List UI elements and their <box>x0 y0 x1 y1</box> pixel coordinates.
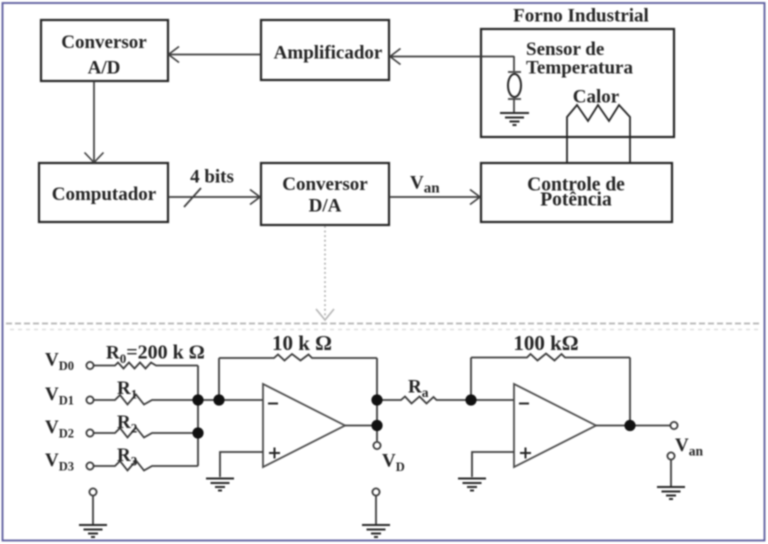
resistor Ra <box>377 397 471 404</box>
wire Conversor A/D to Computador with arrow <box>93 81 95 161</box>
resistor R0 <box>94 363 198 369</box>
svg-text:Calor: Calor <box>573 87 620 108</box>
terminal VD3 <box>86 462 93 469</box>
feedback right vertical op2 <box>629 358 631 426</box>
wire sensor to Amplificador with arrow <box>391 56 514 58</box>
op1 plus sign <box>269 448 280 459</box>
svg-text:4 bits: 4 bits <box>190 167 234 188</box>
bus slash 4 bits <box>184 188 201 207</box>
junction node Ra tap <box>371 394 382 405</box>
divider faint second line <box>10 329 760 331</box>
box Conversor A/D <box>41 20 168 81</box>
resistor R3 <box>94 461 198 471</box>
dotted wire D/A down to divider with arrow <box>316 226 334 320</box>
wire Amplificador to Conversor A/D with arrow <box>170 54 261 56</box>
feedback right vertical op1 <box>376 358 378 441</box>
feedback left vertical op1 <box>218 358 220 400</box>
junction node feedback2 at op2 inverting input <box>465 394 476 405</box>
ground op2 plus <box>458 479 486 491</box>
resistor R1 <box>94 395 198 405</box>
op2 plus sign <box>520 448 531 459</box>
junction node op2 output <box>624 420 635 431</box>
op2 minus sign <box>519 403 529 405</box>
svg-text:100 kΩ: 100 kΩ <box>513 331 578 355</box>
svg-text:Computador: Computador <box>52 184 157 205</box>
op1 output wire <box>345 425 377 427</box>
svg-text:Conversor: Conversor <box>61 32 147 53</box>
svg-text:10 k Ω: 10 k Ω <box>272 331 332 355</box>
divider dotted line <box>6 323 760 325</box>
junction node feedback1 at op1 inverting input <box>213 394 224 405</box>
junction node op1 output <box>371 420 382 431</box>
box Forno Industrial <box>481 29 674 137</box>
svg-text:Temperatura: Temperatura <box>526 58 633 79</box>
wire Computador to Conversor D/A with arrow <box>168 196 259 198</box>
op-amp U1 <box>263 384 345 467</box>
op-amp U2 <box>514 384 596 467</box>
terminal Van output <box>670 422 677 429</box>
summing bus vertical <box>197 366 199 467</box>
op1 plus input wire <box>220 452 263 477</box>
box Computador <box>39 163 168 222</box>
ground sensor <box>500 113 529 125</box>
heater element Calor <box>567 105 630 163</box>
ground terminal mid VD <box>372 488 379 495</box>
feedback resistor 10k <box>219 354 377 361</box>
ground terminal Van <box>667 452 674 459</box>
wire Ra to op-amp2 minus <box>471 399 514 401</box>
op1 minus sign <box>268 403 278 405</box>
feedback left vertical op2 <box>470 358 472 401</box>
ground op1 plus <box>206 479 234 491</box>
svg-text:D/A: D/A <box>309 196 342 217</box>
svg-text:Forno Industrial: Forno Industrial <box>513 6 649 27</box>
box Amplificador <box>261 20 389 80</box>
svg-text:Conversor: Conversor <box>282 174 368 195</box>
terminal VD0 <box>86 362 93 369</box>
feedback resistor 100k <box>471 354 630 361</box>
sensor thermistor oval <box>508 71 521 73</box>
sensor wire vertical <box>513 56 515 71</box>
box Controle de Potencia <box>481 163 672 222</box>
terminal VD2 <box>86 429 93 436</box>
op2 output wire <box>596 425 670 427</box>
box Conversor D/A <box>261 163 389 225</box>
op2 plus input wire <box>472 452 514 477</box>
wire Conversor D/A to Controle with arrow <box>389 196 479 198</box>
junction node bus R2 row <box>192 427 203 438</box>
junction node bus R1 row <box>192 394 203 405</box>
svg-text:A/D: A/D <box>88 58 121 79</box>
ground terminal left <box>89 488 96 495</box>
terminal VD output <box>373 442 380 449</box>
svg-text:Amplificador: Amplificador <box>274 43 383 64</box>
svg-text:Potência: Potência <box>540 190 612 211</box>
resistor R2 <box>94 428 198 438</box>
wire bus to op-amp1 minus <box>198 399 263 401</box>
terminal VD1 <box>86 396 93 403</box>
